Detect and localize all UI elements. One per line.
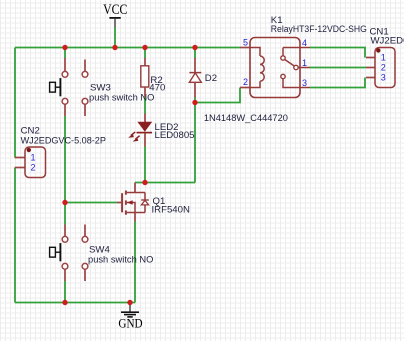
K1 pin 4 line xyxy=(283,47,310,49)
CN2 pin 1 lead xyxy=(15,157,25,159)
push switch SW3 xyxy=(50,58,155,116)
SW3 terminal circles xyxy=(62,71,68,77)
LED2 triangle xyxy=(138,122,152,131)
wire D2 node down to drain horizontal xyxy=(194,103,196,183)
push switch SW4 xyxy=(50,225,154,282)
ground GND xyxy=(118,303,142,331)
resistor R2 xyxy=(141,58,166,97)
wire VCC flag to bus xyxy=(114,28,116,48)
wire GND bottom bus xyxy=(15,302,135,304)
wire relay K1 pin 1 to CN1 pin 2 xyxy=(310,67,366,69)
K1 NO contact circle xyxy=(281,56,285,60)
SW4 pin 2 lead xyxy=(84,225,86,237)
connector CN1 xyxy=(366,27,404,88)
SW3 pin 4 lead xyxy=(84,104,86,116)
D2 cathode lead xyxy=(194,58,196,73)
Q1 drain lead xyxy=(134,183,136,193)
K1 pin 3 line xyxy=(283,79,310,88)
wire relay K1 pin 3 to CN1 pin 3 xyxy=(310,78,365,88)
svg-text:2: 2 xyxy=(31,163,36,173)
relay K1 xyxy=(240,15,367,98)
R2 pin 1 lead xyxy=(144,58,146,66)
Q1 body diode triangle xyxy=(141,200,148,205)
LED2 cathode bar xyxy=(137,132,153,134)
wire SW3 bottom leg to gate node xyxy=(64,116,66,203)
Q1 gate lead xyxy=(117,202,122,204)
SW3 button cap xyxy=(50,82,56,92)
svg-text:1N4148W_C444720: 1N4148W_C444720 xyxy=(204,113,288,124)
CN1 body xyxy=(375,48,395,88)
svg-text:3: 3 xyxy=(381,73,386,83)
junction bus/SW3 xyxy=(62,45,67,50)
LED LED2 xyxy=(128,114,194,147)
SW4 pin 1 lead xyxy=(64,225,66,237)
junction bus/R2 xyxy=(142,45,147,50)
Q1 body connection xyxy=(127,203,135,213)
svg-text:IRF540N: IRF540N xyxy=(152,205,190,216)
svg-text:2: 2 xyxy=(243,77,248,87)
wire D2 node to relay K1 pin 2 xyxy=(195,88,240,103)
wire gate node to SW4 top leg xyxy=(64,203,66,225)
LED2 emission arrow 2 xyxy=(135,136,139,140)
Q1 body diode branch xyxy=(144,193,146,213)
CN2 pin 1 marker dot xyxy=(27,148,31,152)
SW3 actuator bar xyxy=(59,78,61,96)
wire Q1 source to GND bus xyxy=(134,222,136,303)
Q1 channel segments xyxy=(125,191,127,195)
SW4 pin 4 lead xyxy=(84,269,86,281)
LED2 emission arrow 1 xyxy=(131,132,135,136)
junction GND bus/SW4 xyxy=(62,300,67,305)
SW3 pin 1 lead xyxy=(64,58,66,71)
svg-text:1: 1 xyxy=(302,58,307,68)
svg-text:VCC: VCC xyxy=(103,2,127,18)
K1 coil top link xyxy=(250,48,260,57)
transistor Q1 xyxy=(117,183,190,222)
svg-text:470: 470 xyxy=(149,83,165,94)
SW3 pin 2 lead xyxy=(84,60,86,72)
K1 coil xyxy=(260,56,264,81)
CN1 pin 1 marker dot xyxy=(376,48,380,52)
junction bus/D2 xyxy=(192,45,197,50)
connector CN2 xyxy=(15,125,106,177)
SW4 button cap xyxy=(50,247,56,257)
K1 common contact circle xyxy=(294,65,298,69)
wire VCC top bus xyxy=(15,47,240,49)
wire D2 anode to node xyxy=(194,98,196,103)
K1 NC contact circle xyxy=(281,74,285,78)
LED2 anode lead xyxy=(144,114,146,123)
D2 anode lead xyxy=(194,82,196,97)
K1 body xyxy=(250,38,300,98)
D2 cathode bar xyxy=(189,72,201,74)
wire left vertical upper (VCC bus to CN2 pin 1) xyxy=(14,48,16,158)
svg-text:2: 2 xyxy=(381,63,386,73)
CN1 pin 3 lead xyxy=(366,77,375,79)
R2 pin 2 lead xyxy=(144,87,146,97)
K1 armature xyxy=(285,60,294,67)
svg-text:push switch NO: push switch NO xyxy=(88,255,153,266)
wire R2 bottom to LED2 anode xyxy=(144,97,146,114)
D2 triangle xyxy=(189,73,201,82)
junction bus/VCC xyxy=(112,45,117,50)
svg-text:RelayHT3F-12VDC-SHG: RelayHT3F-12VDC-SHG xyxy=(271,24,367,35)
junction gate node xyxy=(62,200,67,205)
svg-text:5: 5 xyxy=(243,38,248,48)
svg-text:WJ2EDGVC-5.08-2P: WJ2EDGVC-5.08-2P xyxy=(21,135,106,146)
wire gate node to Q1 gate xyxy=(65,202,117,204)
SW4 terminal circles xyxy=(62,236,68,242)
wire left vertical lower (CN2 pin 2 to GND bus) xyxy=(14,168,16,303)
Q1 gate bar xyxy=(121,193,123,212)
LED2 cathode lead xyxy=(144,133,146,147)
wire drain node horizontal xyxy=(135,182,195,184)
Q1 drain bar xyxy=(127,192,145,194)
junction D2 anode node xyxy=(192,100,197,105)
CN2 body xyxy=(25,147,46,178)
SW3 pin 3 lead xyxy=(64,104,66,116)
svg-text:4: 4 xyxy=(302,38,307,48)
svg-text:3: 3 xyxy=(302,78,307,88)
Q1 source bar xyxy=(127,212,145,214)
SW4 pin 3 lead xyxy=(64,269,66,281)
junction GND tap xyxy=(127,300,132,305)
wire bus to R2 top xyxy=(144,48,146,59)
svg-text:1: 1 xyxy=(31,153,36,163)
svg-text:WJ2EDGVC-5.08-3P: WJ2EDGVC-5.08-3P xyxy=(371,36,404,47)
SW4 actuator bar xyxy=(59,243,61,261)
wire SW4 bottom leg to GND bus xyxy=(64,281,66,303)
Q1 source lead xyxy=(134,213,136,222)
wire relay K1 pin 4 to CN1 pin 1 xyxy=(310,48,365,58)
K1 pin 1 line xyxy=(298,67,310,69)
Q1 body arrow xyxy=(127,200,132,204)
junction drain node xyxy=(142,180,147,185)
CN1 pin 1 lead xyxy=(366,57,375,59)
svg-text:LED0805: LED0805 xyxy=(155,130,195,141)
power flag VCC xyxy=(103,2,127,28)
CN1 pin 2 lead xyxy=(366,67,375,69)
Q1 body diode cathode bar xyxy=(141,199,149,201)
diode D2 xyxy=(189,58,288,124)
svg-text:GND: GND xyxy=(118,316,142,330)
svg-text:D2: D2 xyxy=(205,73,217,84)
wire bus to D2 cathode xyxy=(194,48,196,59)
K1 pin 5 lead xyxy=(240,47,250,49)
wire LED2 cathode to drain node xyxy=(144,147,146,183)
wire SW3 top leg xyxy=(64,48,66,59)
K1 coil bottom link xyxy=(250,81,260,87)
K1 pin 2 lead xyxy=(240,87,250,89)
R2 body xyxy=(141,66,149,87)
CN2 pin 2 lead xyxy=(15,167,25,169)
svg-text:1: 1 xyxy=(381,53,386,63)
